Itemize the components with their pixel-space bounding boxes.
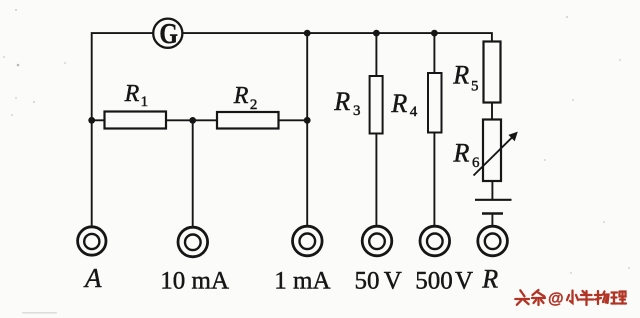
- label R3: [333, 87, 360, 119]
- svg-text:R: R: [333, 87, 350, 116]
- svg-text:G: G: [159, 18, 178, 49]
- galvanometer G: [153, 18, 182, 49]
- wire R2 to right junction: [279, 119, 308, 121]
- svg-text:1 mA: 1 mA: [274, 268, 330, 295]
- label R2: [233, 83, 258, 113]
- char 理: [612, 292, 627, 304]
- terminal R: [478, 226, 508, 256]
- resistor R3: [370, 76, 383, 134]
- label terminal 50 V: [355, 268, 402, 295]
- rheostat arrow on R6: [474, 132, 518, 176]
- svg-text:2: 2: [250, 97, 258, 113]
- svg-text:R: R: [124, 81, 140, 107]
- wire R6 to battery: [491, 181, 493, 200]
- wire 50 V branch upper: [375, 33, 377, 76]
- terminal 1 mA: [293, 226, 323, 256]
- char 小: [567, 291, 578, 304]
- svg-text:R: R: [481, 265, 498, 294]
- char 牛: [580, 291, 594, 305]
- wire middle junction to R2: [193, 119, 217, 121]
- svg-text:1: 1: [141, 94, 149, 110]
- svg-text:500: 500: [415, 268, 453, 295]
- svg-text:6: 6: [472, 155, 480, 171]
- node middle junction (10 mA tap): [189, 117, 196, 124]
- svg-text:V: V: [455, 268, 473, 295]
- battery long plate: [475, 199, 512, 201]
- svg-text:R: R: [233, 83, 249, 109]
- node top junction 1 mA: [304, 30, 311, 37]
- svg-text:50: 50: [355, 268, 380, 295]
- svg-text:10 mA: 10 mA: [160, 268, 229, 295]
- wire R1 to middle junction: [166, 119, 193, 121]
- svg-text:V: V: [384, 268, 402, 295]
- svg-text:3: 3: [353, 103, 361, 119]
- wire top-left (left corner to galvanometer): [92, 33, 154, 120]
- wire 500 V branch lower: [433, 133, 435, 227]
- svg-text:@: @: [548, 291, 564, 308]
- label R6: [453, 138, 481, 171]
- svg-text:R: R: [452, 61, 469, 90]
- wire middle row (junction to R1): [92, 119, 105, 121]
- node top junction 50 V: [373, 30, 380, 37]
- char 条: [532, 290, 545, 305]
- wire battery to terminal R: [491, 214, 493, 227]
- terminal 500 V: [420, 226, 450, 256]
- svg-text:A: A: [83, 263, 102, 293]
- resistor R1: [105, 112, 167, 129]
- char 物: [595, 291, 609, 304]
- svg-text:R: R: [453, 138, 470, 167]
- char 头: [515, 290, 529, 305]
- terminal 10 mA: [178, 227, 208, 257]
- wire top-right (galvanometer to R5 branch corner): [182, 33, 492, 41]
- label R1: [124, 81, 149, 110]
- label R5: [452, 61, 478, 95]
- node left junction: [88, 117, 95, 124]
- node middle-right junction: [304, 117, 311, 124]
- terminal 50 V: [362, 226, 392, 256]
- label terminal 500 V: [415, 268, 473, 295]
- wire R5 to R6: [491, 103, 493, 120]
- resistor R2: [217, 112, 279, 129]
- battery short plate: [482, 212, 503, 214]
- resistor R4: [428, 73, 442, 133]
- wire 1 mA branch (top wire to terminal): [306, 33, 308, 226]
- wire 500 V branch upper: [433, 33, 435, 73]
- wire left vertical (junction to terminal A): [91, 120, 93, 225]
- wire 50 V branch lower: [375, 134, 377, 227]
- svg-text:R: R: [390, 89, 407, 118]
- watermark 头条 @小牛物理 (red): [515, 290, 626, 308]
- node top junction 500 V: [431, 30, 438, 37]
- resistor R5: [484, 42, 501, 103]
- label R4: [390, 89, 417, 120]
- terminal A: [78, 227, 106, 255]
- svg-text:5: 5: [471, 79, 479, 95]
- resistor R6 (rheostat): [483, 120, 501, 182]
- svg-text:4: 4: [410, 104, 418, 120]
- wire 10 mA branch: [192, 120, 194, 226]
